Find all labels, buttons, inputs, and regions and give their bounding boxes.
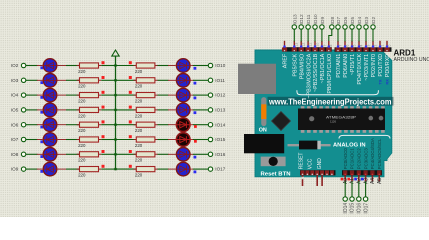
svg-text:220: 220	[78, 158, 86, 163]
svg-text:IO16: IO16	[357, 203, 363, 214]
svg-text:~PD5/T1: ~PD5/T1	[350, 54, 356, 75]
svg-text:PC2/ADC2: PC2/ADC2	[357, 148, 362, 170]
svg-text:A5: A5	[377, 178, 383, 184]
svg-text:IO16: IO16	[215, 152, 225, 157]
svg-text:1: 1	[380, 45, 384, 47]
svg-text:IO6: IO6	[343, 17, 348, 25]
svg-text:10: 10	[315, 43, 319, 47]
svg-text:VCC: VCC	[308, 158, 314, 169]
svg-text:220: 220	[78, 128, 86, 133]
svg-text:4: 4	[359, 45, 363, 47]
svg-text:0: 0	[387, 45, 391, 47]
svg-text:ARDUINO UNO: ARDUINO UNO	[394, 57, 429, 63]
svg-text:IO12: IO12	[215, 93, 225, 98]
svg-text:PD0/RXD: PD0/RXD	[385, 54, 391, 77]
svg-text:IO11: IO11	[306, 14, 311, 24]
svg-text:PB5/SCK: PB5/SCK	[293, 53, 299, 76]
svg-text:220: 220	[135, 99, 143, 104]
svg-text:IO2: IO2	[11, 63, 19, 68]
svg-text:PD1/TXD: PD1/TXD	[378, 54, 384, 77]
svg-text:IO5: IO5	[350, 17, 355, 25]
svg-text:PC4/ADC4/SDA: PC4/ADC4/SDA	[370, 138, 375, 169]
svg-text:PC0/ADC0: PC0/ADC0	[343, 148, 348, 170]
svg-text:PC5/ADC5/SCL: PC5/ADC5/SCL	[377, 138, 382, 169]
svg-text:IO14: IO14	[215, 122, 225, 127]
svg-text:PB4/MISO: PB4/MISO	[299, 54, 305, 79]
svg-text:220: 220	[78, 173, 86, 178]
svg-text:220: 220	[135, 69, 143, 74]
svg-text:3: 3	[366, 45, 370, 47]
svg-text:IO9: IO9	[320, 17, 325, 25]
svg-text:IO15: IO15	[350, 203, 356, 214]
svg-text:7: 7	[338, 45, 342, 47]
svg-text:~PB1/OC1A: ~PB1/OC1A	[320, 53, 326, 83]
svg-text:IO13: IO13	[292, 14, 297, 25]
svg-text:IO12: IO12	[299, 14, 304, 25]
svg-text:~PD3/INT1: ~PD3/INT1	[364, 54, 370, 81]
svg-text:IO13: IO13	[215, 108, 225, 113]
svg-text:IO14: IO14	[343, 203, 349, 214]
svg-text:PC3/ADC3: PC3/ADC3	[363, 148, 368, 170]
svg-text:6: 6	[345, 45, 349, 47]
svg-text:2: 2	[373, 45, 377, 47]
svg-text:PD7/AIN1: PD7/AIN1	[336, 54, 342, 78]
svg-text:TX: TX	[379, 79, 383, 84]
svg-text:220: 220	[78, 69, 86, 74]
svg-text:~PB3/MOSI/OC2A: ~PB3/MOSI/OC2A	[306, 53, 312, 98]
svg-text:220: 220	[135, 84, 143, 89]
svg-text:5: 5	[352, 45, 356, 47]
svg-text:220: 220	[135, 143, 143, 148]
svg-text:~PB2/SS/OC1B: ~PB2/SS/OC1B	[313, 53, 319, 92]
svg-text:1126: 1126	[330, 120, 336, 124]
svg-text:IO17: IO17	[215, 167, 225, 172]
svg-text:A4: A4	[370, 178, 376, 184]
svg-text:220: 220	[135, 128, 143, 133]
svg-text:IO17: IO17	[363, 203, 369, 214]
svg-text:IO5: IO5	[11, 108, 19, 113]
svg-text:PD6/AIN0: PD6/AIN0	[343, 54, 349, 78]
svg-text:220: 220	[78, 84, 86, 89]
svg-text:220: 220	[78, 113, 86, 118]
svg-text:GND: GND	[317, 158, 323, 170]
svg-text:IO7: IO7	[336, 17, 341, 25]
svg-text:www.TheEngineeringProjects.com: www.TheEngineeringProjects.com	[268, 96, 392, 106]
svg-text:IO2: IO2	[371, 17, 376, 25]
svg-text:IO9: IO9	[11, 167, 19, 172]
svg-text:Reset BTN: Reset BTN	[261, 171, 291, 177]
svg-text:220: 220	[135, 158, 143, 163]
svg-text:AREF: AREF	[283, 53, 289, 68]
svg-text:ON: ON	[259, 127, 267, 133]
svg-text:13: 13	[295, 43, 299, 47]
svg-text:PD4/T0/XCK: PD4/T0/XCK	[357, 53, 363, 84]
svg-text:8: 8	[329, 45, 333, 47]
svg-text:A3: A3	[363, 178, 369, 184]
svg-text:220: 220	[135, 173, 143, 178]
svg-text:IO4: IO4	[11, 93, 19, 98]
svg-text:IO3: IO3	[11, 78, 19, 83]
svg-text:11: 11	[309, 43, 313, 47]
svg-text:IO6: IO6	[11, 122, 19, 127]
svg-text:RESET: RESET	[298, 153, 304, 170]
svg-text:IO11: IO11	[215, 78, 225, 83]
svg-text:PC1/ADC1: PC1/ADC1	[350, 148, 355, 170]
svg-text:220: 220	[78, 99, 86, 104]
svg-text:IO8: IO8	[330, 17, 335, 25]
svg-text:PB0/ICP1/CLKO: PB0/ICP1/CLKO	[327, 54, 333, 94]
svg-text:PD2/INT0: PD2/INT0	[371, 54, 377, 78]
svg-text:IO3: IO3	[364, 17, 369, 25]
svg-text:9: 9	[322, 45, 326, 47]
svg-text:RX: RX	[386, 79, 390, 85]
svg-text:IO8: IO8	[11, 152, 19, 157]
svg-text:IO7: IO7	[11, 137, 19, 142]
svg-text:IO10: IO10	[215, 63, 225, 68]
svg-text:220: 220	[78, 143, 86, 148]
svg-text:12: 12	[302, 43, 306, 47]
svg-text:ANALOG IN: ANALOG IN	[333, 143, 366, 149]
svg-text:220: 220	[135, 113, 143, 118]
svg-text:IO15: IO15	[215, 137, 225, 142]
svg-text:IO4: IO4	[357, 17, 362, 25]
svg-text:IO10: IO10	[313, 14, 318, 25]
